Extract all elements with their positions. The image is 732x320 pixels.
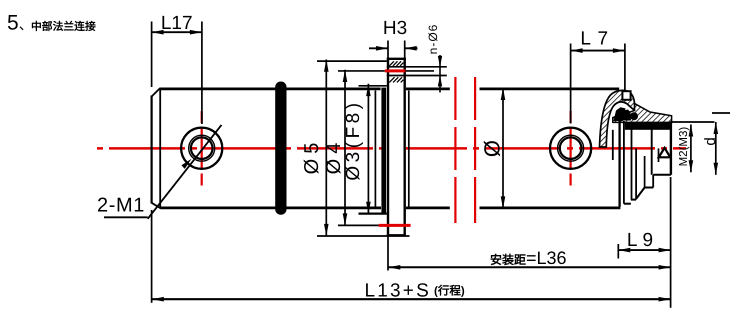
svg-text:2-M1: 2-M1	[97, 195, 145, 217]
svg-text:Ø3(F8): Ø3(F8)	[343, 99, 364, 180]
svg-text:(行程): (行程)	[434, 285, 465, 298]
svg-text:L9: L9	[627, 230, 658, 251]
svg-text:M2(M3): M2(M3)	[678, 127, 690, 167]
svg-text:H3: H3	[383, 18, 407, 39]
svg-text:L7: L7	[580, 29, 614, 50]
svg-text:L17: L17	[161, 13, 193, 34]
svg-text:Ø4: Ø4	[323, 138, 345, 175]
svg-text:L13+S: L13+S	[365, 280, 431, 301]
svg-text:Ø5: Ø5	[301, 138, 323, 175]
svg-text:Ø: Ø	[480, 140, 505, 157]
svg-text:中部法兰连接: 中部法兰连接	[31, 20, 96, 33]
svg-text:n-Ø6: n-Ø6	[426, 24, 440, 55]
svg-text:d: d	[702, 137, 719, 145]
